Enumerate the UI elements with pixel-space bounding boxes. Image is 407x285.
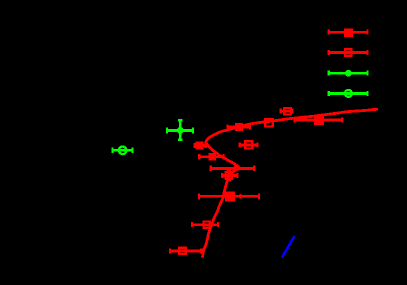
point F error bar — [199, 193, 259, 199]
point B marker (open square on curve) — [265, 119, 272, 126]
legend entry 4: green open circle — [329, 91, 368, 96]
theory curve (red mass-radius line) — [202, 109, 377, 257]
legend entry 1: red filled square — [329, 30, 368, 35]
green open circle error bar — [113, 148, 133, 154]
green cross error bars — [167, 120, 193, 140]
point E marker — [208, 153, 216, 161]
lower open square error bar — [192, 222, 218, 227]
point C error bar — [295, 118, 343, 123]
point H marker — [245, 141, 252, 148]
point E error bar — [199, 154, 223, 159]
point C marker — [314, 115, 324, 125]
point I marker — [226, 172, 232, 178]
green open circle marker — [119, 147, 127, 155]
point A marker — [235, 123, 243, 131]
point H error bar — [240, 143, 258, 148]
mid error bar — [211, 166, 255, 171]
legend entry 2: red open square — [329, 50, 368, 55]
mid bar marker (small filled square on curve) — [234, 165, 240, 171]
point F marker — [225, 192, 235, 202]
point I error bars — [222, 171, 237, 181]
green filled circle marker — [177, 127, 184, 134]
point A error bar — [228, 125, 251, 130]
point D marker — [196, 142, 204, 150]
point D error bar — [194, 143, 205, 148]
point G error bar — [281, 109, 293, 114]
lower open square marker — [204, 222, 210, 228]
legend entry 3: green filled circle — [329, 71, 368, 76]
point J error bar — [170, 248, 201, 253]
point J marker — [179, 248, 185, 254]
blue line segment — [282, 236, 295, 258]
point G marker — [284, 108, 291, 115]
